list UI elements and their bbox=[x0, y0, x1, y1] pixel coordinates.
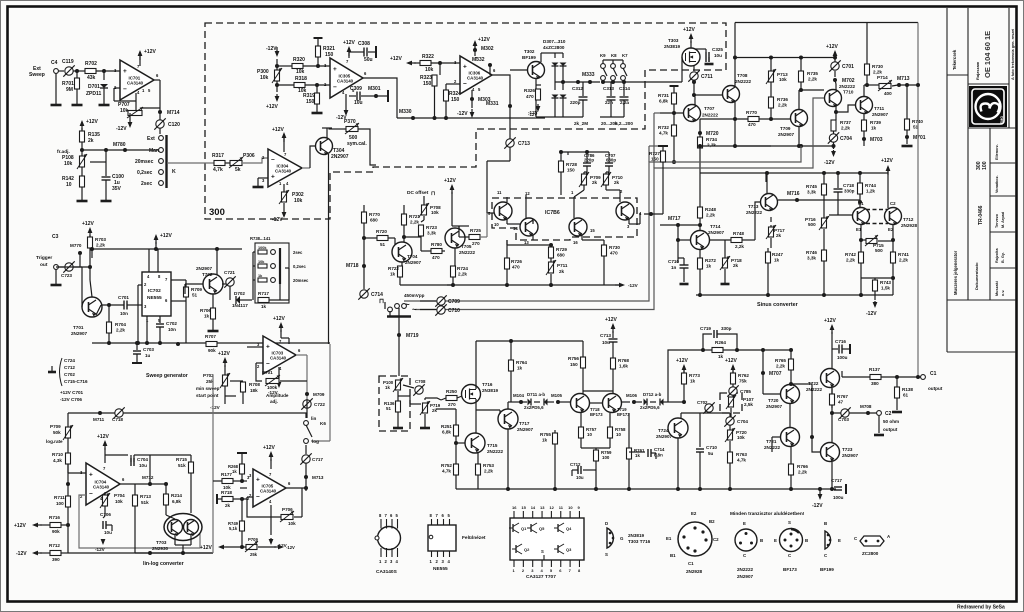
svg-text:2k: 2k bbox=[776, 233, 782, 238]
svg-text:T724: T724 bbox=[658, 428, 669, 433]
svg-text:R711: R711 bbox=[54, 495, 65, 500]
svg-text:-12V: -12V bbox=[628, 283, 639, 288]
svg-text:D702: D702 bbox=[234, 291, 245, 296]
svg-text:+12V: +12V bbox=[390, 56, 402, 62]
wire bbox=[535, 79, 537, 117]
svg-text:C1: C1 bbox=[688, 561, 694, 566]
svg-text:150: 150 bbox=[651, 157, 659, 162]
svg-text:4,3k: 4,3k bbox=[53, 458, 62, 463]
svg-text:M713: M713 bbox=[312, 475, 324, 480]
svg-text:C2: C2 bbox=[713, 537, 719, 542]
transistor T703 pair bbox=[164, 514, 202, 541]
dashed block outline 300 bbox=[205, 23, 726, 219]
svg-text:1,2k: 1,2k bbox=[866, 189, 875, 194]
resistor R703 bbox=[88, 237, 93, 248]
capacitor C717 bbox=[834, 486, 842, 488]
svg-text:IC7B6: IC7B6 bbox=[545, 210, 560, 216]
wire gate bbox=[630, 81, 682, 83]
cap group brace bbox=[60, 358, 63, 386]
wire bbox=[68, 552, 213, 554]
svg-text:330p: 330p bbox=[721, 326, 732, 331]
svg-text:C702: C702 bbox=[697, 400, 708, 405]
svg-text:90k: 90k bbox=[208, 348, 216, 353]
test point C718b bbox=[115, 409, 123, 417]
wire bbox=[73, 70, 85, 72]
resistor R758 bbox=[609, 413, 611, 427]
test point C713 bbox=[506, 139, 514, 147]
svg-text:90k: 90k bbox=[52, 529, 60, 534]
wire base bbox=[772, 436, 780, 438]
svg-text:T303 T716: T303 T716 bbox=[628, 539, 651, 544]
supply -12V arrow bbox=[278, 367, 280, 378]
svg-text:Sweep: Sweep bbox=[29, 72, 45, 78]
pinout ZC2800 bbox=[860, 536, 884, 546]
wire bbox=[859, 202, 861, 208]
wire bbox=[532, 219, 534, 224]
IC702 NE555 bbox=[142, 272, 171, 316]
svg-text:M716: M716 bbox=[787, 191, 800, 197]
svg-text:2N2222: 2N2222 bbox=[735, 79, 752, 84]
svg-text:T704: T704 bbox=[407, 254, 418, 259]
supply +12V arrow bbox=[683, 366, 685, 374]
wire bbox=[167, 162, 214, 164]
svg-text:1k: 1k bbox=[390, 272, 396, 277]
op-amp IC705 bbox=[253, 469, 286, 507]
node M713b bbox=[305, 463, 307, 491]
svg-text:10n: 10n bbox=[168, 327, 176, 332]
transistor T705 bbox=[445, 228, 465, 248]
svg-text:C704: C704 bbox=[137, 457, 148, 462]
capacitor C710b bbox=[677, 240, 679, 263]
svg-text:B: B bbox=[805, 538, 808, 543]
pot P714 bbox=[864, 84, 879, 86]
svg-text:10k: 10k bbox=[64, 161, 73, 167]
wire bbox=[184, 284, 186, 294]
svg-text:-12V: -12V bbox=[272, 217, 283, 223]
svg-text:R744: R744 bbox=[865, 183, 876, 188]
op-amp IC306 bbox=[460, 56, 492, 94]
svg-text:Tervezo: Tervezo bbox=[995, 213, 999, 228]
svg-text:2N2907: 2N2907 bbox=[842, 453, 859, 458]
transistor T302 bbox=[528, 62, 545, 79]
svg-text:⊓: ⊓ bbox=[379, 298, 384, 305]
svg-text:M709: M709 bbox=[313, 392, 325, 397]
resistor R753 bbox=[477, 453, 479, 464]
svg-text:1,6k: 1,6k bbox=[619, 364, 628, 369]
resistor R770 bbox=[700, 118, 748, 120]
svg-text:-12V: -12V bbox=[95, 547, 106, 552]
transistor T713 bbox=[761, 194, 778, 211]
capacitor C314 bbox=[623, 82, 625, 96]
svg-text:2N2907: 2N2907 bbox=[656, 434, 673, 439]
svg-text:C717: C717 bbox=[831, 478, 842, 483]
terminal C1 output bbox=[921, 375, 926, 380]
svg-text:C702: C702 bbox=[64, 372, 75, 377]
svg-text:470: 470 bbox=[432, 255, 440, 260]
svg-text:log: log bbox=[312, 439, 319, 444]
svg-text:R730: R730 bbox=[872, 64, 883, 69]
svg-text:2N2222: 2N2222 bbox=[702, 113, 719, 118]
svg-text:1k: 1k bbox=[261, 304, 267, 309]
wire bbox=[475, 399, 477, 434]
svg-text:C703: C703 bbox=[143, 347, 154, 352]
wire bbox=[540, 53, 542, 62]
wire output bbox=[492, 75, 510, 161]
svg-text:S: S bbox=[788, 520, 791, 525]
bus wire bottom bbox=[512, 488, 836, 490]
wire bbox=[224, 396, 226, 404]
op-amp IC704 bbox=[86, 463, 120, 505]
svg-text:1u: 1u bbox=[145, 353, 151, 358]
svg-text:R753: R753 bbox=[483, 463, 494, 468]
selector bar bbox=[279, 248, 281, 284]
svg-text:2N2907: 2N2907 bbox=[737, 574, 754, 579]
svg-text:16: 16 bbox=[512, 505, 517, 510]
svg-text:0,2...200: 0,2...200 bbox=[615, 121, 633, 126]
svg-text:3,3k: 3,3k bbox=[807, 190, 816, 195]
svg-text:R702: R702 bbox=[85, 61, 97, 67]
svg-text:K9: K9 bbox=[600, 53, 606, 58]
resistor R250 bbox=[446, 396, 457, 401]
resistor R768 bbox=[611, 358, 616, 369]
svg-text:380: 380 bbox=[871, 381, 879, 386]
svg-text:NE555: NE555 bbox=[147, 295, 162, 301]
supply +12V arrow bbox=[81, 122, 83, 130]
svg-text:2N2907: 2N2907 bbox=[766, 404, 783, 409]
svg-text:C722: C722 bbox=[314, 402, 325, 407]
supply +12V arrow bbox=[612, 325, 614, 333]
resistor R319 bbox=[315, 83, 319, 87]
node bbox=[692, 80, 696, 84]
svg-text:C2: C2 bbox=[885, 411, 892, 417]
svg-text:B1: B1 bbox=[670, 553, 676, 558]
svg-text:R722: R722 bbox=[388, 266, 399, 271]
svg-text:Muszaki: Muszaki bbox=[995, 281, 999, 296]
svg-text:35V: 35V bbox=[112, 186, 122, 192]
svg-text:R737: R737 bbox=[840, 120, 851, 125]
svg-text:10u: 10u bbox=[602, 340, 610, 345]
svg-text:15: 15 bbox=[590, 228, 595, 233]
wire bbox=[831, 462, 833, 489]
resistor R702 bbox=[85, 69, 96, 74]
svg-text:C709: C709 bbox=[448, 299, 460, 305]
pinout BF199 bbox=[825, 531, 831, 549]
svg-text:R715: R715 bbox=[176, 457, 187, 462]
wire bbox=[763, 349, 791, 351]
svg-text:min sweep: min sweep bbox=[196, 386, 220, 391]
supply -12V arrow bbox=[537, 104, 539, 110]
resistor R767 bbox=[831, 388, 833, 394]
wire bbox=[90, 161, 106, 163]
svg-text:CA3140: CA3140 bbox=[260, 489, 277, 494]
svg-text:2,2k: 2,2k bbox=[484, 469, 493, 474]
svg-text:R727: R727 bbox=[649, 151, 660, 156]
resistor R136 bbox=[396, 401, 401, 412]
wire bbox=[302, 167, 310, 169]
capacitor C719 bbox=[703, 334, 712, 350]
supply -12V arrow bbox=[270, 505, 272, 535]
svg-text:R766: R766 bbox=[797, 464, 808, 469]
svg-text:M105: M105 bbox=[551, 393, 563, 398]
svg-text:2k: 2k bbox=[614, 180, 620, 185]
svg-text:P709: P709 bbox=[50, 424, 61, 429]
svg-text:M332: M332 bbox=[472, 57, 485, 63]
svg-text:C715-C716: C715-C716 bbox=[64, 379, 88, 384]
wire bbox=[734, 119, 736, 146]
resistor R718 bbox=[216, 494, 218, 504]
svg-text:10k: 10k bbox=[120, 108, 129, 114]
wire bbox=[276, 59, 278, 66]
node M105 bbox=[556, 400, 560, 404]
pinout NE555 DIP bbox=[428, 525, 456, 551]
svg-text:R729: R729 bbox=[556, 247, 567, 252]
resistor R759 bbox=[594, 450, 599, 461]
svg-text:R730: R730 bbox=[609, 245, 620, 250]
supply +12V arrow bbox=[280, 324, 282, 332]
svg-text:5,1k: 5,1k bbox=[229, 526, 238, 531]
svg-text:2,2k: 2,2k bbox=[798, 470, 807, 475]
capacitor C309 bbox=[349, 95, 356, 97]
svg-text:150: 150 bbox=[570, 362, 578, 367]
svg-text:~: ~ bbox=[405, 300, 410, 309]
svg-text:+12V: +12V bbox=[273, 316, 285, 322]
svg-text:M. Arpad: M. Arpad bbox=[1001, 211, 1005, 228]
wire emitter bbox=[734, 102, 736, 119]
wire bbox=[789, 404, 791, 427]
title block frame bbox=[947, 8, 1016, 352]
supply -12V arrow bbox=[102, 539, 104, 543]
svg-text:2,2k: 2,2k bbox=[458, 272, 467, 277]
wire bbox=[423, 196, 425, 205]
op-amp IC305 bbox=[330, 58, 363, 98]
wire bbox=[506, 197, 508, 202]
capacitor C312 bbox=[582, 82, 584, 96]
svg-text:S: S bbox=[541, 549, 544, 554]
svg-text:R322: R322 bbox=[422, 54, 434, 60]
diode D711b bbox=[544, 399, 548, 406]
node output bbox=[832, 412, 877, 414]
transistor T712 pair B bbox=[885, 208, 902, 225]
transistor T719 bbox=[603, 394, 622, 413]
pot P720 bbox=[729, 425, 731, 430]
diode D309 chain bbox=[554, 77, 556, 90]
svg-text:450mVpp: 450mVpp bbox=[404, 293, 425, 298]
capacitor C707 bbox=[587, 151, 609, 153]
svg-text:T710: T710 bbox=[843, 90, 854, 95]
node M707 bbox=[762, 350, 764, 392]
svg-text:R725: R725 bbox=[470, 228, 481, 233]
svg-text:T303: T303 bbox=[668, 38, 679, 43]
svg-text:C702: C702 bbox=[166, 321, 177, 326]
wire bbox=[590, 402, 602, 404]
pot P100 bbox=[396, 380, 401, 390]
svg-text:+12V: +12V bbox=[725, 358, 737, 364]
dashed pair link T712 bbox=[866, 209, 888, 211]
svg-text:output: output bbox=[928, 386, 943, 391]
pot P706 bbox=[247, 496, 253, 498]
resistor R756 bbox=[582, 341, 584, 357]
resistor R731 bbox=[670, 85, 679, 87]
svg-text:C718: C718 bbox=[843, 183, 854, 188]
svg-text:P709: P709 bbox=[248, 537, 258, 542]
svg-text:150: 150 bbox=[451, 97, 460, 103]
node M104 bbox=[519, 400, 523, 404]
pot P718 bbox=[724, 240, 726, 258]
wire bbox=[190, 494, 192, 513]
resistor R727 bbox=[658, 145, 668, 147]
svg-text:+12V: +12V bbox=[266, 104, 278, 110]
resistor R264 bbox=[701, 348, 705, 352]
svg-text:14: 14 bbox=[513, 226, 518, 231]
svg-text:−: − bbox=[123, 86, 127, 93]
svg-text:+12V: +12V bbox=[97, 434, 109, 440]
wire bbox=[326, 128, 328, 138]
svg-text:B2: B2 bbox=[709, 519, 715, 524]
svg-text:680: 680 bbox=[370, 218, 378, 223]
svg-text:2k: 2k bbox=[592, 180, 598, 185]
svg-text:2,2k: 2,2k bbox=[116, 328, 125, 333]
supply +12V arrow bbox=[155, 236, 157, 244]
svg-text:C714: C714 bbox=[654, 447, 665, 452]
supply +12V arrow bbox=[139, 52, 141, 66]
capacitor C714b bbox=[629, 451, 645, 453]
svg-text:M713: M713 bbox=[897, 76, 910, 82]
svg-text:CA3127 T707: CA3127 T707 bbox=[526, 574, 556, 580]
svg-text:500: 500 bbox=[875, 248, 883, 253]
svg-text:100u: 100u bbox=[837, 355, 848, 360]
svg-text:M702: M702 bbox=[842, 78, 855, 84]
svg-text:Rajzszam: Rajzszam bbox=[975, 61, 980, 80]
svg-text:2N2222: 2N2222 bbox=[839, 84, 856, 89]
wire bbox=[82, 149, 125, 151]
svg-text:25k: 25k bbox=[250, 552, 258, 557]
svg-text:M301: M301 bbox=[368, 86, 381, 92]
resistor R728 bbox=[560, 152, 562, 161]
wire pin2 bbox=[138, 284, 142, 286]
svg-text:C723: C723 bbox=[61, 273, 72, 278]
svg-text:R746: R746 bbox=[806, 250, 817, 255]
wire base bbox=[836, 105, 855, 112]
wire bbox=[148, 249, 150, 272]
svg-text:M714: M714 bbox=[167, 110, 180, 116]
svg-text:+12V C701: +12V C701 bbox=[60, 390, 84, 395]
op-amp IC304 bbox=[268, 149, 302, 187]
svg-text:6,8k: 6,8k bbox=[172, 499, 181, 504]
supply -12V arrow bbox=[345, 94, 347, 106]
svg-text:C716: C716 bbox=[835, 339, 846, 344]
svg-text:4xZC2800: 4xZC2800 bbox=[543, 45, 565, 50]
wire +12V rail bbox=[92, 248, 242, 250]
supply +12V arrow bbox=[348, 48, 350, 58]
wire bbox=[455, 409, 457, 425]
svg-text:+12V: +12V bbox=[82, 221, 94, 227]
transistor T712 pair A bbox=[853, 208, 870, 225]
supply +12V arrow bbox=[887, 167, 889, 175]
svg-text:1n: 1n bbox=[671, 265, 677, 270]
diode D712b bbox=[660, 399, 664, 406]
test point C702 bbox=[705, 404, 713, 412]
svg-text:50u: 50u bbox=[364, 57, 373, 63]
node M709 bbox=[305, 392, 309, 396]
rail top bbox=[736, 145, 771, 147]
svg-text:C724: C724 bbox=[64, 358, 75, 363]
resistor R765 bbox=[790, 350, 792, 359]
svg-text:R726: R726 bbox=[511, 259, 522, 264]
pot P715 bbox=[860, 224, 862, 240]
svg-text:50k: 50k bbox=[53, 430, 61, 435]
svg-text:-12V: -12V bbox=[528, 112, 537, 117]
svg-text:CA3140: CA3140 bbox=[467, 76, 484, 81]
svg-text:E: E bbox=[743, 521, 746, 526]
wire bbox=[306, 413, 308, 418]
svg-text:3,3k: 3,3k bbox=[427, 231, 436, 236]
node M303 bbox=[471, 90, 473, 108]
wire top row bbox=[68, 412, 307, 414]
svg-text:R708: R708 bbox=[249, 382, 260, 387]
pot P709 bbox=[582, 174, 587, 185]
svg-text:−: − bbox=[463, 81, 467, 88]
resistor R138 bbox=[896, 377, 898, 387]
svg-text:BF173: BF173 bbox=[590, 412, 603, 417]
resistor R712 bbox=[34, 552, 42, 554]
svg-text:R320: R320 bbox=[293, 57, 305, 63]
wire bbox=[677, 438, 679, 489]
svg-text:51k: 51k bbox=[178, 463, 186, 468]
svg-text:C119: C119 bbox=[62, 59, 74, 65]
resistor R736 bbox=[769, 97, 774, 108]
wire bbox=[861, 277, 893, 279]
svg-text:CA3140: CA3140 bbox=[270, 356, 287, 361]
wire bbox=[798, 90, 800, 110]
resistor R748 bbox=[709, 239, 731, 241]
resistor R737 bbox=[831, 120, 836, 131]
svg-text:Dokumentacio: Dokumentacio bbox=[974, 262, 979, 290]
pot P716 bbox=[823, 214, 825, 218]
resistor R709 bbox=[171, 279, 186, 281]
wire bbox=[362, 78, 397, 118]
svg-text:2N3819: 2N3819 bbox=[482, 388, 499, 393]
transistor T722 bbox=[821, 369, 840, 388]
svg-text:R712: R712 bbox=[49, 543, 60, 548]
ground bbox=[393, 427, 403, 430]
svg-text:150: 150 bbox=[423, 81, 432, 87]
svg-text:−: − bbox=[89, 491, 93, 498]
dashed box P100 bbox=[379, 376, 410, 431]
svg-text:BF199: BF199 bbox=[522, 55, 536, 60]
supply -12V arrow bbox=[283, 208, 285, 216]
svg-text:M703: M703 bbox=[870, 137, 883, 143]
svg-text:2,2k: 2,2k bbox=[735, 244, 744, 249]
svg-text:1N4117: 1N4117 bbox=[232, 303, 248, 308]
svg-text:R318: R318 bbox=[295, 76, 307, 82]
ground bbox=[51, 104, 62, 107]
resistor 10k bbox=[258, 264, 267, 268]
node M708 bbox=[866, 411, 870, 415]
op-amp IC701 bbox=[120, 60, 154, 100]
svg-text:R748: R748 bbox=[733, 231, 744, 236]
svg-text:10u: 10u bbox=[139, 463, 147, 468]
svg-text:T705: T705 bbox=[461, 244, 472, 249]
svg-text:Man: Man bbox=[149, 148, 159, 154]
svg-text:2N2907: 2N2907 bbox=[778, 132, 795, 137]
svg-text:BF173: BF173 bbox=[783, 567, 797, 572]
svg-text:R734: R734 bbox=[706, 137, 717, 142]
capacitor C710c bbox=[699, 413, 701, 447]
svg-text:2N2907: 2N2907 bbox=[872, 112, 889, 117]
svg-text:2x2PD5,6: 2x2PD5,6 bbox=[524, 405, 544, 410]
svg-text:log.rate: log.rate bbox=[46, 439, 63, 444]
svg-text:~: ~ bbox=[412, 305, 417, 314]
